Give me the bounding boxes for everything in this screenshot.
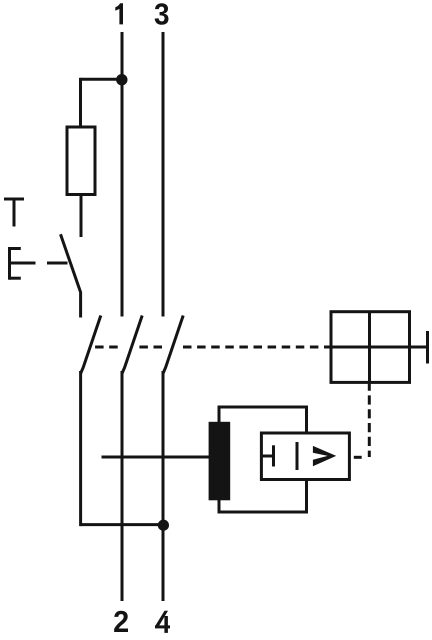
test button actuator bracket xyxy=(10,247,21,280)
wire: test branch down to resistor xyxy=(79,78,82,127)
wire: test branch lower lead xyxy=(79,371,82,526)
sensing wire through CT core xyxy=(102,456,210,459)
wire: pole 2 lower lead to terminal 4 xyxy=(162,371,165,601)
contact blade pole test branch xyxy=(81,316,101,374)
wire: pole 1 lower lead to terminal 2 xyxy=(121,371,124,601)
trip bar dashed linkage xyxy=(95,346,331,349)
relay input symbol xyxy=(261,445,273,466)
current transformer core (filled) xyxy=(209,422,231,501)
wire: test branch horizontal tap xyxy=(81,78,123,81)
node: junction of test branch on line 1 xyxy=(116,74,127,85)
relay greater-than symbol xyxy=(313,446,336,466)
dashed link relay output to mechanism xyxy=(354,382,370,458)
terminal label 4 xyxy=(155,611,170,633)
wire: resistor lead down to test contact xyxy=(80,195,83,238)
relay threshold bar xyxy=(296,442,299,470)
test button label T xyxy=(4,199,24,227)
relay box xyxy=(261,433,349,480)
contact blade pole 1 (line 1-2) xyxy=(122,316,142,374)
wire: test return to line 4 xyxy=(81,523,163,526)
test switch blade xyxy=(61,234,81,317)
wire: line 1 from terminal 1 down to pole 1 contact xyxy=(121,32,124,317)
mechanical linkage dashed (button to blade) xyxy=(10,262,68,265)
wire: line 3 from terminal 3 down to pole 2 contact xyxy=(162,32,165,317)
resistor: test resistor xyxy=(67,127,95,195)
contact blade pole 2 (line 3-4) xyxy=(163,316,183,374)
mechanism box xyxy=(326,312,428,383)
manual actuator handle bar xyxy=(426,331,429,364)
housing box of sensing assembly xyxy=(219,407,307,512)
svg-text:3: 3 xyxy=(154,0,170,32)
terminal label 1 xyxy=(115,3,123,24)
node: junction of test return on line 4 xyxy=(158,520,169,531)
svg-text:2: 2 xyxy=(113,605,129,639)
